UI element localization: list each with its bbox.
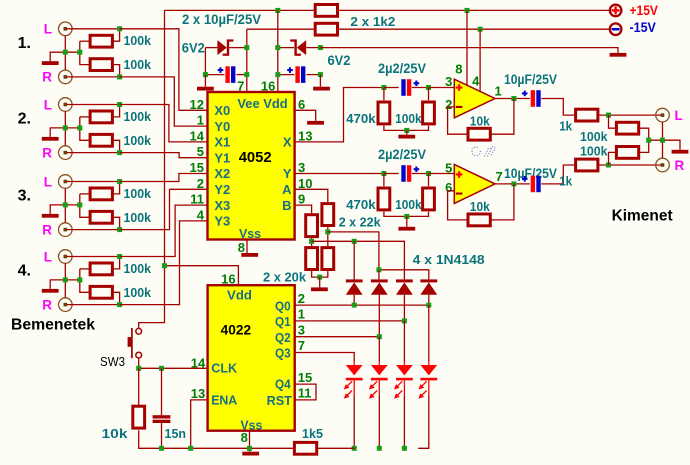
node X cap in: [381, 85, 386, 90]
connector out R: [656, 158, 670, 172]
svg-text:R: R: [42, 297, 52, 312]
svg-text:7: 7: [298, 338, 305, 353]
diode D4 1N4148: [371, 279, 388, 282]
svg-text:L: L: [44, 174, 52, 189]
wire op1 cap to 1k: [541, 99, 574, 116]
resistor 100k input 1 upper: [90, 35, 112, 47]
resistor 100k input 4 lower: [90, 286, 112, 298]
svg-text:2µ2/25V: 2µ2/25V: [378, 60, 427, 76]
connector input 2 R: [59, 146, 73, 160]
svg-text:1k5: 1k5: [302, 426, 323, 441]
diode D3 1N4148: [346, 279, 363, 282]
wire led1 down: [353, 395, 355, 448]
op-amp U2b body: [454, 164, 495, 203]
svg-text:R: R: [42, 70, 52, 85]
svg-text:100k: 100k: [124, 57, 152, 72]
node Q0 D3: [352, 303, 357, 308]
svg-text:100k: 100k: [395, 111, 422, 126]
wire 10k top: [138, 368, 140, 406]
wire 100k lower to R 4: [114, 292, 120, 304]
wire input 2 gnd stub: [50, 128, 80, 137]
svg-text:X0: X0: [214, 103, 230, 118]
wire ground rail: [320, 48, 618, 53]
wire filter bottoms lower: [384, 212, 429, 217]
wire out 100k lower leads: [609, 152, 616, 165]
wire Q3 row: [295, 353, 355, 362]
wire 22k a bottom: [311, 238, 313, 246]
node bus led3: [402, 446, 407, 451]
svg-text:6: 6: [298, 97, 305, 112]
svg-text:4: 4: [472, 74, 480, 89]
wire signal 7 to 4052 pin: [120, 205, 208, 256]
wire 100k lower to R 3: [114, 217, 120, 229]
node input 3 shield: [63, 202, 68, 207]
wire input 1 shield: [64, 36, 66, 70]
svg-text:Y: Y: [283, 166, 292, 181]
wire node Q link: [379, 270, 429, 280]
wire Q0 row: [295, 304, 429, 306]
ground pin6: [307, 121, 324, 125]
ground C1: [197, 87, 214, 91]
svg-text:1.: 1.: [18, 35, 31, 52]
svg-text:Q2: Q2: [275, 330, 291, 345]
svg-text:Q1: Q1: [275, 314, 291, 329]
wire Y out: [295, 173, 384, 175]
label op1 minus: [456, 106, 463, 108]
wire zener D2 cathode: [278, 47, 294, 49]
svg-text:5: 5: [197, 144, 204, 159]
svg-text:R: R: [42, 145, 52, 160]
svg-text:L: L: [44, 249, 52, 264]
LED 2: [378, 361, 380, 365]
svg-text:10k: 10k: [102, 426, 129, 441]
node clk sw: [136, 366, 141, 371]
wire cap C2 left lead: [278, 74, 295, 76]
node C1 right: [244, 72, 249, 77]
svg-text:3: 3: [445, 74, 452, 89]
wire cap out lower: [412, 173, 429, 175]
wire col1 top: [353, 241, 355, 279]
label op2 plus: [456, 173, 463, 175]
svg-text:L: L: [44, 97, 52, 112]
wire led4 down: [418, 395, 429, 448]
wire gnd stub C2: [319, 75, 321, 87]
svg-text:8: 8: [241, 430, 248, 445]
node input 2 L: [117, 102, 122, 107]
node input 3 divider: [77, 202, 82, 207]
wire op2 feedback: [448, 191, 467, 220]
watermark scribble: [472, 147, 495, 157]
node Q0 col4: [426, 303, 431, 308]
svg-text:15: 15: [190, 160, 204, 175]
wire 100k top upper: [428, 88, 430, 101]
ground 4052 Vss: [241, 253, 258, 257]
wire col4 led: [428, 305, 430, 361]
resistor 100k input 2 upper: [90, 111, 112, 123]
svg-text:3.: 3.: [18, 188, 31, 205]
label 2u2 plus lower: [414, 168, 420, 170]
resistor 100k lower: [423, 188, 435, 210]
wire signal 6 to 4052 pin: [120, 189, 208, 229]
ground input 2: [42, 137, 59, 141]
node bus led2: [377, 446, 382, 451]
wire out 100k lower right: [640, 140, 649, 152]
node out shield: [660, 138, 665, 143]
wire input 1 gnd stub: [50, 52, 80, 61]
svg-text:15n: 15n: [165, 426, 187, 441]
capacitor C1 10uF: [225, 66, 229, 83]
wire op1 pin4 supply: [479, 29, 481, 91]
svg-text:Bemenetek: Bemenetek: [11, 317, 95, 334]
wire col2 top: [378, 270, 380, 280]
wire op2 out: [495, 183, 530, 185]
symbol -15V: [610, 23, 622, 35]
resistor 470k upper: [378, 102, 390, 124]
wire +6V2 vertical rail: [139, 10, 165, 328]
ground C2: [313, 87, 330, 91]
wire out 100k upper leads: [609, 115, 616, 128]
svg-text:4.: 4.: [18, 263, 31, 280]
svg-text:6V2: 6V2: [182, 41, 205, 56]
connector out L: [656, 108, 670, 122]
connector input 3 R: [59, 223, 73, 237]
svg-text:100k: 100k: [124, 109, 152, 124]
svg-text:L: L: [44, 22, 52, 37]
LED 1: [353, 361, 355, 365]
wire gnd stub C1: [204, 75, 206, 87]
wire 4052 Vss: [246, 240, 248, 254]
wire signal 5 to 4052 pin: [120, 174, 208, 182]
wire 1k R out: [599, 164, 662, 166]
wire 100k upper to L 1: [114, 29, 120, 41]
wire CLK row: [139, 367, 208, 369]
node Y cap in: [381, 171, 386, 176]
svg-text:4022: 4022: [221, 323, 252, 338]
svg-text:11: 11: [190, 192, 204, 207]
node op2 out: [511, 181, 516, 186]
connector input 3 L: [59, 175, 73, 189]
resistor 100k out lower: [616, 147, 638, 159]
svg-text:8: 8: [238, 240, 245, 255]
wire signal 4 to 4052 pin: [120, 153, 208, 158]
wire -15V rail: [247, 28, 314, 30]
svg-text:470k: 470k: [346, 197, 376, 212]
wire signal 2 to 4052 pin: [120, 77, 208, 126]
resistor 1k R: [576, 159, 598, 171]
svg-text:2.: 2.: [18, 111, 31, 128]
wire 20k bottoms: [312, 271, 328, 277]
svg-text:2: 2: [445, 97, 452, 112]
svg-text:1: 1: [298, 307, 305, 322]
node input 4 R: [117, 302, 122, 307]
svg-text:4052: 4052: [239, 149, 272, 166]
ground input 4: [42, 289, 59, 293]
svg-text:2: 2: [197, 176, 204, 191]
node C2 left: [275, 72, 280, 77]
wire cap C2 right lead: [306, 74, 320, 76]
IC U1 4052 body: [208, 92, 295, 240]
ground rail end: [610, 53, 627, 57]
wire Q1 row: [295, 320, 405, 322]
node filter gnd lower: [404, 214, 409, 219]
capacitor 15n plates: [153, 415, 171, 418]
wire op1 +in: [429, 87, 455, 89]
wire input 4 shield: [64, 263, 66, 297]
diode D5 1N4148: [396, 279, 413, 282]
svg-text:3: 3: [298, 322, 305, 337]
wire SW3 bottom: [138, 358, 140, 368]
wire 100k top lower: [428, 174, 430, 187]
node input 1 R: [117, 74, 122, 79]
svg-text:16: 16: [261, 78, 275, 93]
wire op1 pin8 supply: [466, 10, 468, 85]
zener D2 6V2: [297, 40, 306, 55]
IC U3 4022 body: [208, 285, 295, 431]
node out 100k join: [646, 138, 651, 143]
svg-text:5: 5: [445, 161, 452, 176]
svg-text:10: 10: [298, 176, 312, 191]
svg-text:Y2: Y2: [214, 182, 230, 197]
svg-text:Q0: Q0: [275, 298, 291, 313]
capacitor 10uF lower: [531, 176, 535, 193]
label 10uF lower plus: [522, 178, 528, 180]
node input 1 divider: [77, 50, 82, 55]
wire 10k bottom: [139, 430, 294, 448]
node P col1: [352, 239, 357, 244]
wire op2 +in: [429, 173, 455, 175]
resistor 100k input 3 lower: [90, 211, 112, 223]
label op2 minus: [456, 193, 463, 195]
node C1 left: [203, 72, 208, 77]
wire input 2 R signal: [67, 152, 120, 154]
node input 4 shield: [63, 277, 68, 282]
svg-text:1k: 1k: [559, 118, 573, 133]
svg-text:8: 8: [455, 62, 462, 77]
wire cap out upper: [412, 87, 429, 89]
svg-text:14: 14: [190, 128, 205, 143]
wire signal 3 to 4052 pin: [120, 105, 208, 142]
svg-text:15: 15: [298, 370, 312, 385]
wire 4052 pin6 inh: [295, 110, 316, 121]
capacitor 2u2 upper: [401, 79, 405, 96]
svg-text:Vee Vdd: Vee Vdd: [237, 96, 287, 111]
svg-text:2: 2: [298, 291, 305, 306]
svg-text:R: R: [675, 158, 685, 173]
wire input 2 divider: [80, 116, 89, 118]
svg-text:4: 4: [197, 207, 205, 222]
svg-text:100k: 100k: [124, 33, 152, 48]
wire input 1 divider: [80, 40, 89, 42]
resistor 1k5: [294, 442, 316, 454]
wire op1 fb right: [491, 99, 514, 135]
zener D1 6V2: [217, 40, 226, 55]
svg-text:A: A: [282, 182, 292, 197]
wire X out: [295, 88, 384, 142]
wire Q2 row: [295, 336, 380, 338]
capacitor 10uF upper: [531, 90, 535, 107]
wire signal 8 to 4052 pin: [120, 221, 208, 305]
wire cap C1 left lead: [205, 48, 224, 75]
svg-text:L: L: [675, 108, 683, 123]
node 22k b bottom: [325, 229, 330, 234]
svg-text:1: 1: [197, 113, 204, 128]
node D2 anode: [318, 45, 323, 50]
op-amp U2a body: [454, 79, 495, 118]
resistor 10k op2: [468, 214, 490, 226]
node input 1 L: [117, 26, 122, 31]
wire 1k L out: [599, 114, 662, 116]
wire input 3 L signal: [67, 181, 120, 183]
svg-text:B: B: [282, 198, 291, 213]
resistor 100k input 3 upper: [90, 188, 112, 200]
wire led3 down: [403, 395, 405, 448]
node rail Vdd junction: [275, 8, 280, 13]
wire 22k b bottom: [327, 227, 329, 246]
wire +15V rail: [165, 9, 315, 11]
wire 100k lower to R 2: [114, 140, 120, 152]
svg-text:7: 7: [496, 169, 503, 184]
label 10uF upper plus: [522, 92, 528, 94]
capacitor C2 10uF: [295, 66, 299, 83]
wire led2 down: [378, 395, 380, 448]
node Q2 col2: [377, 334, 382, 339]
node bus vss: [247, 446, 252, 451]
wire filter gnd stub upper: [406, 130, 408, 134]
wire 4022 Vdd: [165, 266, 239, 286]
node input 3 R: [117, 227, 122, 232]
connector input 1 R: [59, 70, 73, 84]
svg-text:100k: 100k: [580, 144, 608, 159]
wire input 3 R signal: [67, 229, 120, 231]
label op1 plus: [456, 87, 463, 89]
node input 4 L: [117, 254, 122, 259]
svg-text:Y1: Y1: [214, 150, 230, 165]
wire input 3 gnd stub: [50, 205, 80, 214]
svg-text:CLK: CLK: [211, 361, 238, 376]
svg-text:11: 11: [298, 386, 312, 401]
svg-text:R: R: [42, 222, 52, 237]
node input 4 divider: [77, 277, 82, 282]
svg-text:2 x 1k2: 2 x 1k2: [350, 14, 395, 29]
node input 1 shield: [63, 50, 68, 55]
wire D6 anode: [428, 295, 430, 305]
svg-text:470k: 470k: [346, 111, 376, 126]
ground input 3: [42, 214, 59, 218]
node R out: [606, 163, 611, 168]
svg-text:-15V: -15V: [630, 20, 656, 35]
wire input 2 shield: [64, 111, 66, 145]
svg-text:Vss: Vss: [239, 226, 261, 241]
ground output: [672, 150, 689, 154]
svg-text:100k: 100k: [124, 210, 152, 225]
svg-text:7: 7: [237, 78, 244, 93]
wire filter bottoms upper: [384, 126, 429, 131]
resistor 100k input 2 lower: [90, 134, 112, 146]
svg-text:Vdd: Vdd: [227, 288, 252, 303]
svg-text:1k: 1k: [559, 174, 573, 189]
svg-text:10µF/25V: 10µF/25V: [504, 71, 558, 87]
resistor 100k upper: [423, 102, 435, 124]
wire 15n bottom: [161, 423, 163, 448]
wire 470k top upper: [383, 88, 385, 101]
node 22k a bottom: [309, 239, 314, 244]
node L out: [606, 113, 611, 118]
svg-text:2 x 20k: 2 x 20k: [263, 270, 307, 285]
wire op1 out: [495, 98, 530, 100]
resistor 20k a: [306, 248, 318, 270]
wire op2 fb right: [491, 184, 514, 220]
node bus 15n: [159, 446, 164, 451]
wire Q4 RST loop: [295, 384, 316, 400]
label C2 plus: [287, 69, 293, 71]
node input 3 L: [117, 179, 122, 184]
svg-text:Y3: Y3: [214, 214, 230, 229]
LED 4: [428, 361, 430, 365]
connector input 2 L: [59, 98, 73, 112]
svg-text:2 x 10µF/25V: 2 x 10µF/25V: [182, 11, 262, 27]
wire out gnd link: [649, 140, 680, 150]
resistor 10k clock: [133, 406, 145, 428]
svg-text:6: 6: [445, 180, 452, 195]
svg-text:100k: 100k: [124, 133, 152, 148]
node Vdd feed: [162, 263, 167, 268]
wire 100k lower to R 1: [114, 65, 120, 77]
resistor 470k lower: [378, 188, 390, 210]
ground input 1: [42, 61, 59, 65]
wire op2 cap to 1k: [541, 165, 574, 184]
wire input 3 shield: [64, 188, 66, 222]
svg-text:Q3: Q3: [275, 346, 291, 361]
node D2 cathode: [275, 45, 280, 50]
node C2 right: [318, 72, 323, 77]
svg-text:100k: 100k: [124, 285, 152, 300]
svg-text:100k: 100k: [124, 261, 152, 276]
wire signal 1 to 4052 pin: [120, 29, 208, 111]
wire A to 22k: [295, 189, 328, 202]
svg-text:X2: X2: [214, 166, 230, 181]
resistor 1k2 lower: [315, 23, 337, 35]
wire op1 feedback: [448, 107, 467, 134]
node X cap out: [426, 85, 431, 90]
svg-text:12: 12: [190, 97, 204, 112]
resistor 100k input 1 lower: [90, 59, 112, 71]
node rail pin8 junction: [465, 8, 470, 13]
connector input 1 L: [59, 22, 73, 36]
svg-text:+15V: +15V: [630, 3, 658, 18]
wire D5 anode: [403, 295, 405, 321]
wire input 2 L signal: [67, 104, 120, 106]
wire input 1 L signal: [67, 28, 120, 30]
diode D6 1N4148: [420, 279, 437, 282]
wire cap C1 right lead: [236, 74, 246, 76]
svg-text:X: X: [283, 135, 292, 150]
svg-text:3: 3: [298, 160, 305, 175]
wire 15n top: [161, 368, 163, 415]
ground filter lower: [398, 227, 415, 231]
wire 4022 Vss: [249, 431, 251, 452]
node clk cap: [159, 366, 164, 371]
node input 2 divider: [77, 125, 82, 130]
wire node P: [312, 241, 405, 279]
svg-text:Kimenet: Kimenet: [612, 208, 674, 225]
wire col3 led: [403, 321, 405, 361]
node bus led1: [352, 446, 357, 451]
svg-text:X3: X3: [214, 198, 230, 213]
svg-text:10k: 10k: [470, 113, 491, 128]
ground filter upper: [398, 135, 415, 139]
wire 100k upper to L 4: [114, 257, 120, 269]
wire input 4 divider: [80, 268, 89, 270]
